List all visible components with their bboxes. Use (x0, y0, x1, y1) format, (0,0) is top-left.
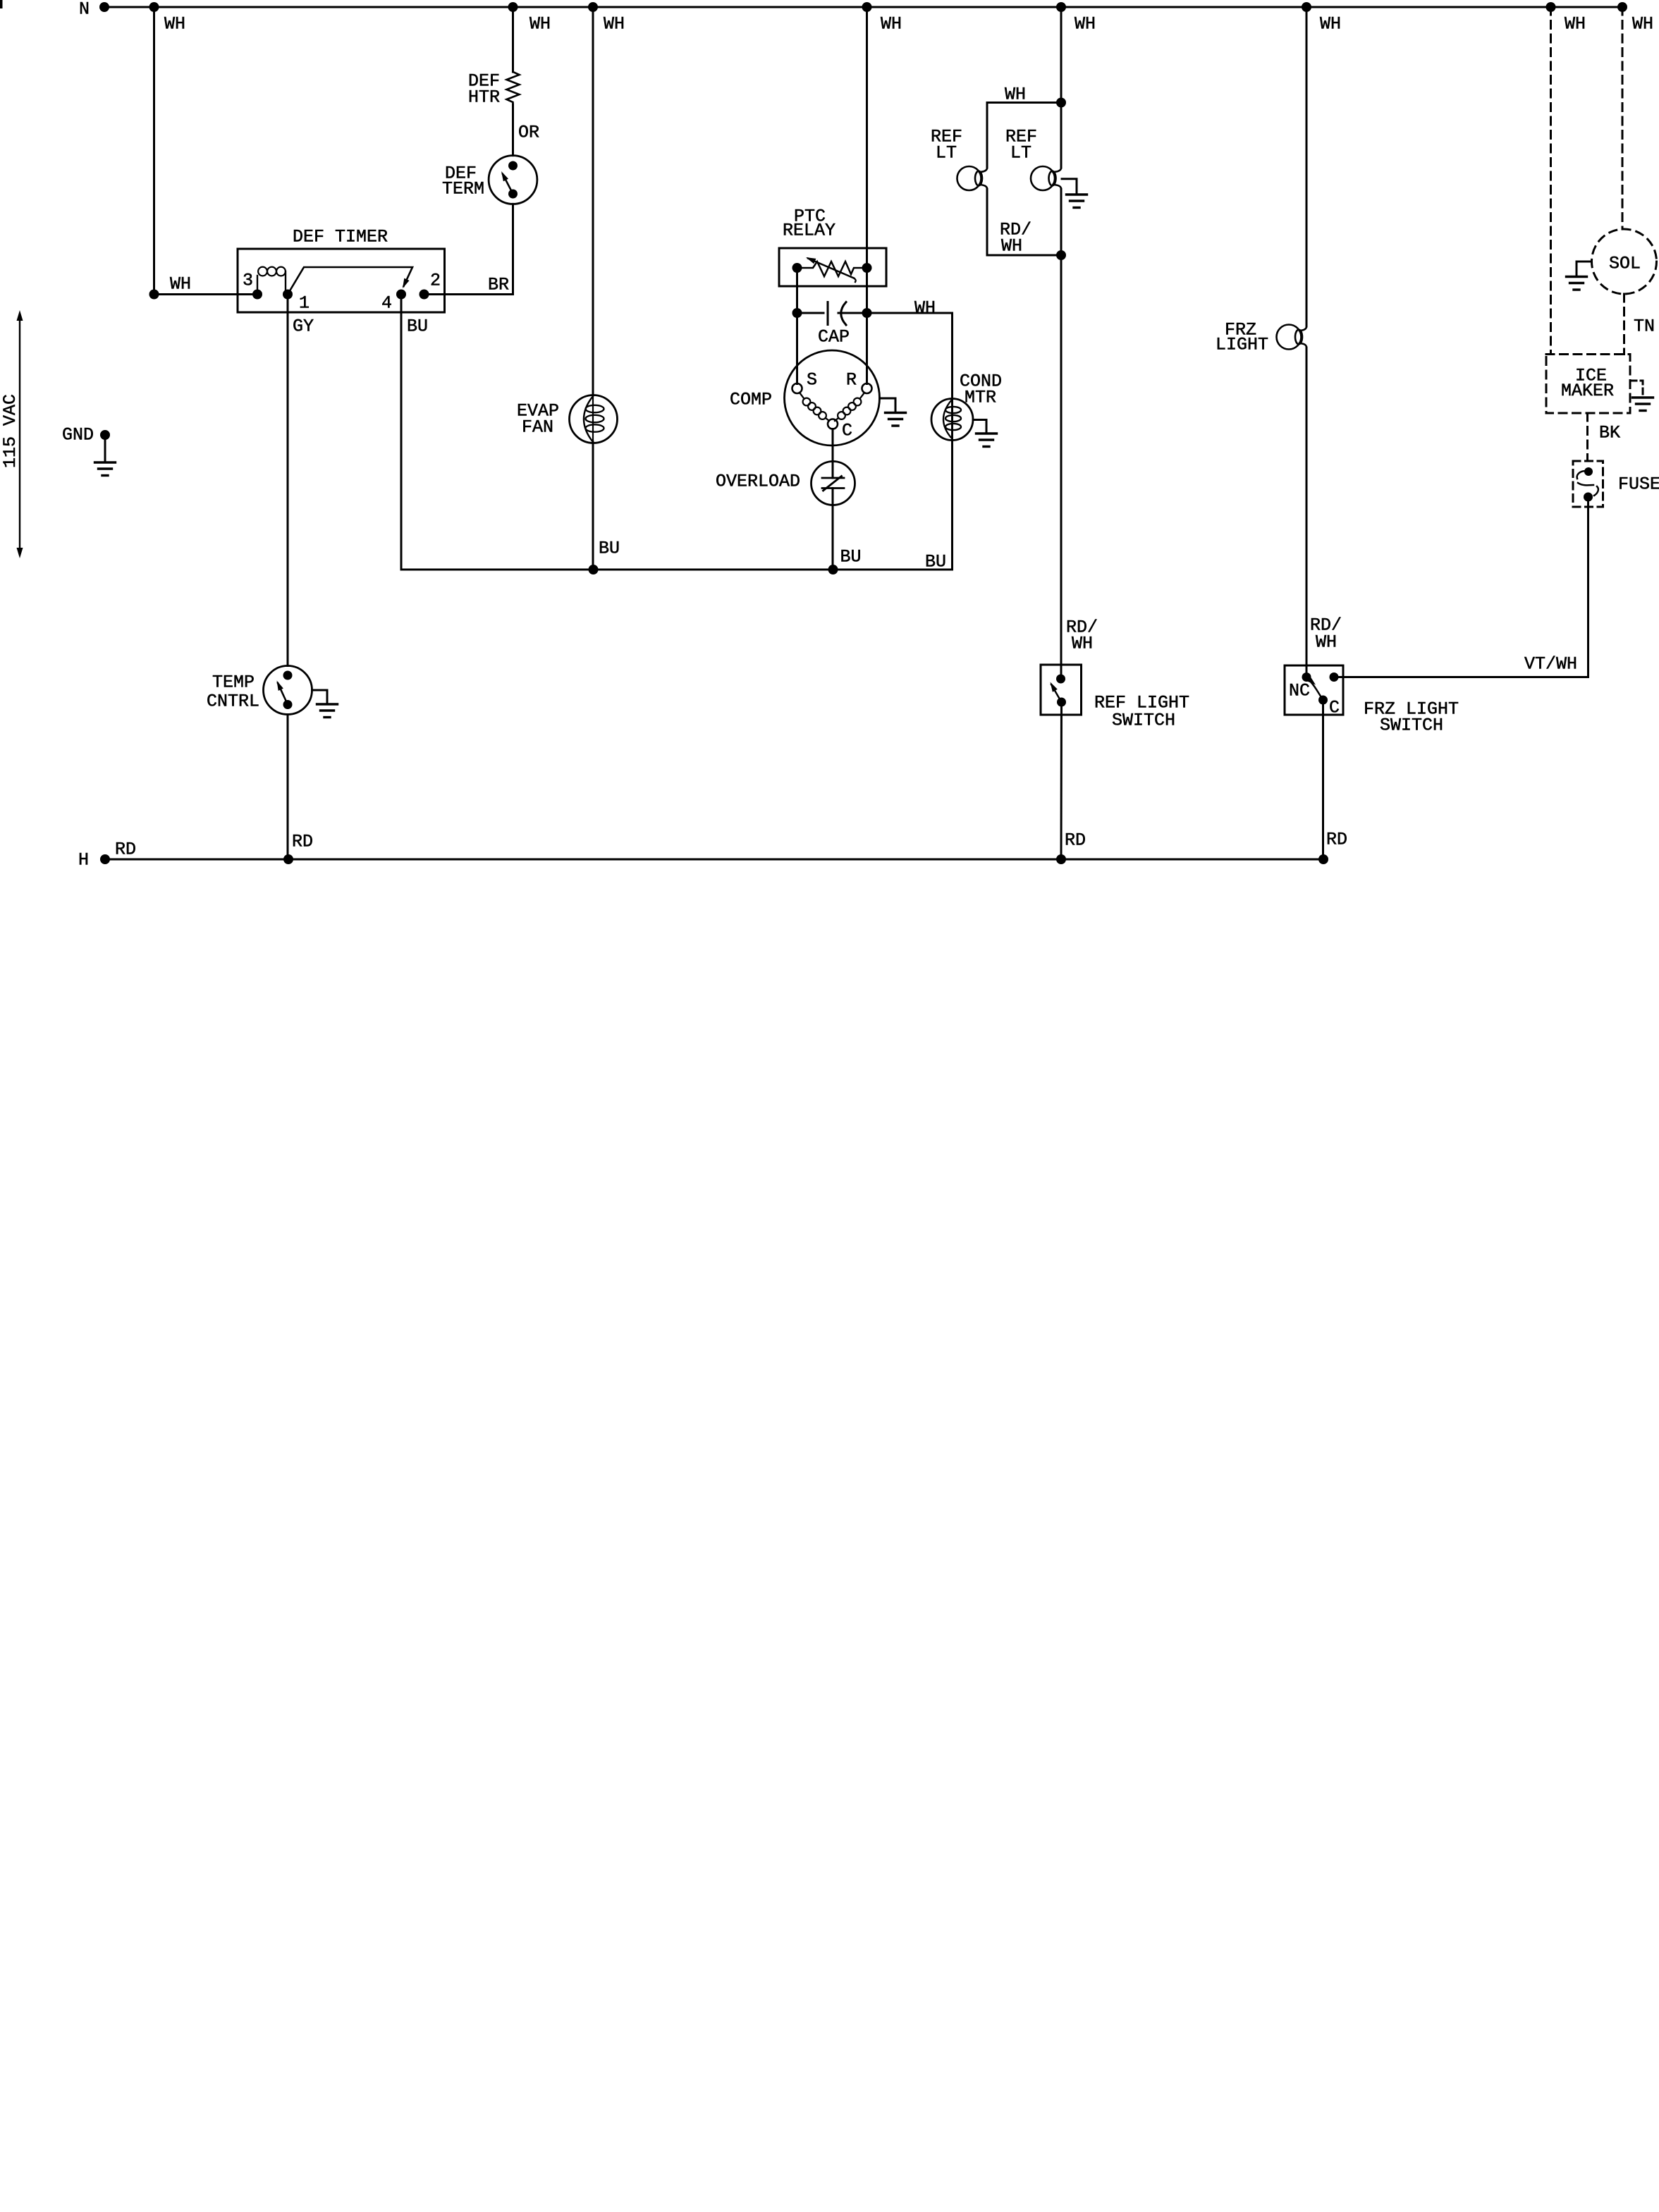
svg-text:WH: WH (881, 14, 902, 35)
svg-text:BU: BU (599, 539, 620, 559)
svg-text:TERM: TERM (442, 179, 484, 199)
wire ICE MAKER to FUSE (dashed, BK) (1586, 413, 1588, 461)
icemaker ICE MAKER box (dashed) (1546, 355, 1630, 414)
node top-rail junction 5 (1056, 2, 1066, 12)
node FRZ LIGHT SWITCH NO contact (1330, 672, 1339, 682)
svg-text:FAN: FAN (522, 417, 553, 438)
node CAP left junction (792, 308, 802, 318)
wire top rail into PTC RELAY (866, 7, 868, 268)
svg-text:WH: WH (914, 298, 936, 319)
wire REF LT right branch top (1060, 103, 1063, 168)
svg-text:WH: WH (1565, 14, 1586, 35)
wire top rail to SOL (dashed, WH) (1622, 7, 1624, 229)
wire FRZ LIGHT to FRZ LIGHT SWITCH (RD/WH) (1306, 348, 1308, 677)
svg-text:OVERLOAD: OVERLOAD (716, 472, 800, 492)
svg-text:WH: WH (164, 14, 185, 35)
wire top rail to EVAP FAN (592, 7, 594, 395)
switch FRZ LIGHT SWITCH box (1285, 665, 1343, 715)
thermostat TEMP CNTRL (264, 666, 312, 715)
svg-text:RD: RD (292, 832, 313, 852)
wire CAP junction to COND MTR branch (WH) (867, 312, 953, 314)
motor EVAP FAN (570, 395, 618, 443)
node top-rail junction 2 (508, 2, 518, 12)
svg-text:LT: LT (1010, 143, 1031, 164)
wire COND MTR branch (riser through motor) (951, 313, 953, 570)
ground TEMP CNTRL case ground (312, 690, 328, 704)
dimension arrow 115 VAC (19, 319, 20, 550)
wire DEF HTR to DEF TERM (OR) (512, 104, 514, 156)
lamp REF LT (left bulb) (957, 166, 981, 190)
svg-text:BR: BR (488, 275, 509, 295)
wire EVAP FAN to BU bus (592, 442, 594, 570)
wire SOL to ICE MAKER (dashed, TN) (1623, 294, 1625, 355)
node CAP right junction (862, 308, 872, 318)
svg-text:115 VAC: 115 VAC (0, 394, 20, 468)
svg-text:RELAY: RELAY (783, 221, 835, 241)
wire top rail to REF LT node (1060, 7, 1063, 103)
node top-rail junction 7 (1546, 2, 1556, 12)
wire PTC right terminal to CAP (866, 268, 868, 313)
switch REF LIGHT SWITCH arm (1051, 684, 1062, 702)
coil COMP run winding (860, 393, 864, 398)
node BU bus junction EVAP FAN (589, 565, 599, 574)
node REF LT bottom junction (1056, 250, 1066, 260)
wire N bus (top rail, WH) (104, 6, 1622, 8)
ground SOL ground (1577, 261, 1592, 263)
wire FRZ LIGHT SWITCH NO to FUSE (VT/WH) (1334, 497, 1588, 677)
svg-text:R: R (846, 370, 857, 391)
protector OVERLOAD (812, 462, 855, 505)
svg-text:CAP: CAP (818, 327, 850, 348)
svg-text:3: 3 (243, 271, 253, 291)
svg-text:WH: WH (170, 274, 191, 295)
wire H bus (bottom rail, RD) (105, 859, 1323, 861)
switch REF LIGHT SWITCH box (1041, 665, 1082, 715)
wire top rail to FRZ LIGHT (1306, 7, 1308, 326)
ground COND MTR case ground (973, 420, 986, 434)
wire REF LIGHT SWITCH to H rail (RD) (1060, 702, 1063, 859)
svg-text:FUSE: FUSE (1618, 474, 1659, 495)
svg-text:DEF TIMER: DEF TIMER (293, 227, 388, 247)
node DEF TIMER pin 3 (252, 290, 262, 300)
node H-rail junction FRZ LIGHT SWITCH (1318, 854, 1328, 864)
svg-text:WH: WH (529, 14, 551, 35)
node top-rail junction 4 (862, 2, 872, 12)
wire CAP right junction to COMP R (866, 313, 868, 384)
node junction at DEF TIMER feed (149, 290, 159, 300)
coil COMP start winding (800, 393, 804, 398)
wire TEMP CNTRL to H rail (RD) (287, 715, 289, 860)
svg-text:GY: GY (293, 317, 314, 337)
node DEF TIMER pin 2 (420, 290, 429, 300)
svg-text:LIGHT: LIGHT (1216, 335, 1268, 355)
wire REF LT junction to REF LIGHT SWITCH (RD/WH) (1060, 255, 1063, 679)
svg-text:HTR: HTR (468, 87, 500, 108)
node PTC RELAY left terminal (792, 263, 802, 273)
svg-text:WH: WH (1072, 634, 1093, 654)
lamp REF LT (right bulb) (1031, 166, 1055, 190)
node H-rail junction TEMP CNTRL (283, 854, 293, 864)
node GND terminal (100, 430, 110, 440)
wire to DEF TIMER pin 3 (154, 293, 258, 295)
svg-text:TN: TN (1634, 317, 1655, 337)
node FUSE bottom terminal (1584, 493, 1593, 502)
node FUSE top terminal (1584, 467, 1593, 476)
svg-text:WH: WH (604, 14, 625, 35)
node N terminal (99, 2, 109, 12)
node H-rail junction REF LIGHT SWITCH (1056, 854, 1066, 864)
node REF LIGHT SWITCH top contact (1056, 675, 1065, 684)
ground ICE MAKER ground (dashed hook) (1631, 381, 1643, 398)
svg-text:SWITCH: SWITCH (1112, 711, 1175, 731)
svg-text:SWITCH: SWITCH (1380, 715, 1443, 736)
wire PTC left terminal to CAP (796, 268, 798, 313)
node DEF TIMER pin 1 (283, 290, 293, 300)
svg-text:BK: BK (1599, 423, 1620, 443)
ground GND symbol (104, 435, 106, 462)
lamp FRZ LIGHT (1277, 325, 1302, 350)
wire top rail to DEF HTR (512, 7, 514, 72)
pin S terminal (792, 383, 802, 393)
wire FRZ LIGHT SWITCH C to H rail (RD) (1322, 700, 1324, 859)
page corner mark (0, 0, 3, 8)
svg-text:WH: WH (1320, 14, 1341, 35)
svg-text:NC: NC (1289, 681, 1310, 701)
svg-text:BU: BU (925, 552, 946, 572)
svg-text:RD: RD (115, 840, 136, 860)
wire COMP C to OVERLOAD (832, 429, 834, 479)
wire DEF TIMER pin 1 to TEMP CNTRL (GY) (287, 295, 289, 666)
svg-text:RD: RD (1326, 830, 1347, 850)
wire REF LT right branch bottom (1060, 189, 1063, 255)
thermostat DEF TERM (489, 156, 537, 204)
resistor DEF HTR (507, 72, 520, 104)
wire OVERLOAD to BU bus (832, 489, 834, 570)
node H terminal (100, 854, 110, 864)
svg-text:BU: BU (840, 547, 862, 567)
solenoid SOL (1592, 229, 1657, 294)
svg-text:OR: OR (518, 123, 539, 143)
svg-text:H: H (78, 850, 89, 871)
relay PTC RELAY box (779, 248, 886, 286)
svg-text:WH: WH (1075, 14, 1096, 35)
svg-text:COMP: COMP (730, 390, 772, 410)
svg-text:WH: WH (1632, 14, 1653, 35)
svg-text:C: C (842, 421, 852, 441)
node top-rail junction 1 (149, 2, 159, 12)
svg-text:SOL: SOL (1609, 254, 1641, 274)
wire CAP left junction to COMP S (796, 313, 798, 384)
node DEF TIMER pin 4 (396, 290, 406, 300)
svg-text:WH: WH (1001, 236, 1022, 257)
compressor COMP housing (785, 350, 880, 446)
motor COND MTR (931, 399, 973, 441)
wire REF LT left branch top (WH) (987, 103, 1061, 168)
node top-rail junction 3 (588, 2, 598, 12)
node PTC RELAY right terminal (862, 263, 872, 273)
svg-text:TEMP: TEMP (212, 672, 255, 693)
svg-text:LT: LT (936, 143, 957, 164)
wire top rail to ICE MAKER (dashed, WH) (1550, 7, 1552, 355)
fuse FUSE element (1577, 471, 1598, 496)
svg-text:MAKER: MAKER (1561, 381, 1614, 401)
wire BU bus (pin4 drop, bottom run, riser to COND MTR) (401, 295, 953, 570)
svg-text:S: S (807, 370, 817, 391)
svg-text:1: 1 (299, 293, 310, 314)
svg-text:WH: WH (1005, 85, 1026, 105)
node top-rail junction 6 (1302, 2, 1311, 12)
svg-text:MTR: MTR (965, 388, 996, 408)
svg-text:GND: GND (62, 425, 94, 446)
svg-text:VT/WH: VT/WH (1524, 654, 1577, 675)
ground COMP case ground (880, 398, 896, 413)
wire DEF TIMER pin 2 to DEF TERM (BR) (424, 293, 513, 295)
pin R terminal (862, 383, 872, 393)
svg-text:BU: BU (407, 317, 428, 337)
fuse FUSE box (dashed) (1573, 461, 1603, 507)
coil DEF TIMER motor winding (257, 276, 258, 295)
node REF LT top junction (1056, 98, 1066, 108)
capacitor CAP (797, 312, 824, 314)
svg-text:4: 4 (381, 293, 392, 314)
svg-text:WH: WH (1316, 632, 1337, 653)
svg-text:CNTRL: CNTRL (207, 692, 259, 712)
resistor PTC element (797, 262, 867, 276)
wire DEF TERM to pin 2 junction (512, 204, 514, 294)
node BU bus junction OVERLOAD (828, 565, 838, 574)
node FRZ LIGHT SWITCH NC contact (1302, 672, 1311, 682)
svg-text:RD: RD (1065, 830, 1086, 851)
node top-rail junction 8 (1617, 2, 1627, 12)
svg-text:2: 2 (430, 271, 441, 291)
wire REF LT left branch bottom (987, 189, 1061, 255)
node FRZ LIGHT SWITCH C contact (1318, 696, 1328, 705)
timer DEF TIMER box (238, 249, 445, 312)
ground REF LT ground (1062, 179, 1077, 195)
switch FRZ LIGHT SWITCH arm (1306, 677, 1323, 701)
pin C terminal (828, 419, 838, 429)
svg-text:C: C (1329, 698, 1340, 718)
node REF LIGHT SWITCH bottom contact (1057, 698, 1066, 707)
wire top rail to DEF TIMER pin 3 (vertical) (153, 7, 155, 295)
svg-text:N: N (79, 0, 90, 20)
switch DEF TIMER contact arm (288, 267, 412, 295)
